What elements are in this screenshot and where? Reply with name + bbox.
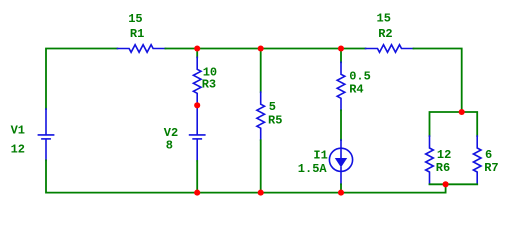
node B junction on top rail [258,45,264,51]
wire stub node C to R4 [340,49,342,63]
wire top-right from R2 down to node D [414,49,462,113]
wire top rail node B to node C [261,48,341,50]
wire V2 bottom to bottom rail [196,161,198,193]
svg-text:R2: R2 [378,27,392,41]
wire stub node B to R5 [260,49,262,93]
svg-text:R1: R1 [130,27,144,41]
wire R5 bottom to bottom rail [260,140,262,192]
resistor R6 [426,136,434,184]
wire bottom-left from V1 bottom to node at V2 [46,160,197,192]
node A junction on top rail [194,45,200,51]
svg-text:12: 12 [11,142,25,156]
wire top rail R1 to node A [165,48,197,50]
node E between R3 and V2 [194,102,200,108]
node G bottom rail at R5 [258,190,264,196]
current source I1 [329,140,352,184]
resistor R7 [473,136,481,184]
svg-text:R7: R7 [484,161,498,175]
wire bottom rail node H to riser at node J [341,184,446,192]
battery V1 [38,109,53,160]
node F bottom rail at V2 [194,190,200,196]
wire bottom rail node G to node H [261,192,341,194]
resistor R1 [117,45,165,53]
node C junction on top rail [338,45,344,51]
resistor R4 [337,62,345,110]
svg-text:5: 5 [269,100,276,114]
svg-text:1.5A: 1.5A [298,162,328,176]
node J junction bottom of R6 R7 pair [443,181,449,187]
wire R4 bottom to I1 top [340,110,342,140]
svg-text:8: 8 [166,139,173,153]
svg-text:R3: R3 [202,77,216,91]
wire top rail node C to R2 [341,48,366,50]
wire stub node A to R3 [196,49,198,58]
resistor R5 [257,92,265,140]
wire I1 bottom to bottom rail [340,184,342,192]
svg-text:V1: V1 [11,123,25,137]
wire top-left from V1 top to R1 [46,49,117,110]
svg-text:0.5: 0.5 [349,70,371,84]
node D junction top of R6 R7 pair [459,109,465,115]
wire top bar of R6 R7 pair [430,112,478,136]
wire top rail node A to node B [197,48,261,50]
wire bottom rail node F to node G [197,192,261,194]
node H bottom rail at I1 [338,190,344,196]
svg-text:R5: R5 [268,113,282,127]
wire bottom bar of R6 R7 pair [430,183,478,185]
svg-text:15: 15 [377,12,391,26]
resistor R3 [193,57,201,105]
svg-text:R6: R6 [436,161,450,175]
svg-text:I1: I1 [313,149,327,163]
svg-text:R4: R4 [349,83,363,97]
battery V2 [190,109,205,162]
resistor R2 [366,45,414,53]
svg-text:15: 15 [128,12,142,26]
